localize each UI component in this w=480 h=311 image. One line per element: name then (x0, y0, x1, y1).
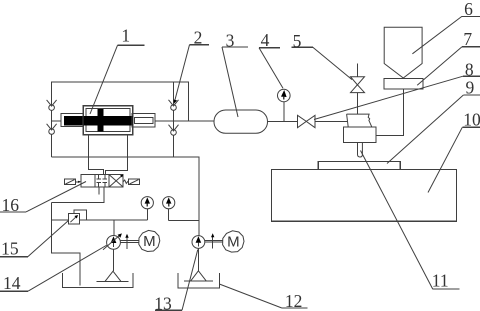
valve V16 crossed cell (109, 175, 123, 187)
label 4 (259, 30, 283, 88)
solenoid left (65, 179, 81, 184)
globe valve V5 (351, 64, 365, 115)
wire left pump riser (113, 220, 115, 236)
valve V16 center blocked ports (97, 175, 108, 187)
piston rod (filled) (64, 116, 133, 126)
label 8 (314, 60, 480, 120)
left rod housing (61, 113, 83, 126)
nozzle upper body (347, 114, 372, 127)
wire valve bottom plugged stub (98, 187, 100, 195)
label 11 (361, 151, 460, 291)
wire valve 8 to nozzle body (315, 120, 347, 122)
gauge G1 (141, 197, 153, 220)
pump P1 variable arrow (103, 233, 122, 249)
valve V16 cell dividers (94, 175, 96, 187)
wire cylinder left port down (88, 135, 103, 175)
svg-text:15: 15 (1, 239, 19, 259)
relief valve V15 body (69, 213, 80, 224)
cylinder C1 outer shell (83, 106, 133, 135)
motor M2 (223, 231, 244, 252)
wire rod line to accumulator (155, 120, 214, 122)
right rod outer tube (132, 113, 155, 127)
relief valve pilot loop (74, 210, 87, 220)
label 9 (387, 77, 480, 163)
table 10 (271, 170, 456, 222)
label 3 (222, 30, 248, 117)
gauge G4 (278, 89, 291, 121)
label 16 (0, 182, 86, 216)
shaft P1-M1 (120, 234, 138, 249)
filter F1 (97, 271, 129, 281)
wire cylinder right port down (105, 135, 127, 175)
wire gauge G2 to right riser (169, 219, 199, 221)
svg-text:4: 4 (261, 30, 270, 50)
svg-text:9: 9 (466, 77, 475, 97)
nozzle lower body (343, 127, 375, 142)
nozzle tip 11 (358, 142, 363, 157)
wire top header from left column to right corner (52, 82, 189, 157)
tank T2 (178, 273, 219, 288)
gauge G2 (163, 197, 175, 221)
svg-text:5: 5 (293, 31, 302, 51)
label 13 (154, 250, 198, 311)
svg-text:13: 13 (154, 293, 172, 311)
wire right check-valve column (173, 82, 175, 157)
label 5 (292, 31, 353, 80)
accumulator A3 (214, 110, 268, 133)
wire long horizontal to right pump riser (52, 157, 199, 235)
svg-text:10: 10 (463, 110, 480, 130)
check valve left bottom (47, 124, 57, 135)
motor M1 (139, 230, 160, 251)
wire pump P1 suction (113, 249, 115, 271)
wire pump P2 suction (197, 248, 199, 270)
piston (filled) (98, 109, 104, 132)
svg-text:1: 1 (121, 25, 130, 45)
cylinder C1 inner bore (86, 109, 130, 132)
feeder block 7 (384, 79, 423, 89)
check valve left top (47, 100, 57, 110)
svg-text:11: 11 (432, 271, 449, 291)
filter F2 (184, 271, 213, 281)
wire feeder pipe down (376, 89, 403, 136)
wire pressure line to gauge (80, 219, 148, 221)
check valve right top (169, 100, 179, 110)
wire rod-end line left (52, 120, 61, 122)
check valve right bottom (169, 125, 179, 136)
wire left return pipe to tank (52, 202, 80, 285)
svg-text:M: M (143, 233, 156, 250)
label 10 (428, 110, 480, 193)
pump P2 (192, 236, 205, 249)
label 2 with arrow (174, 27, 209, 103)
shaft P2-M2 (205, 233, 223, 248)
valve V16 body (81, 175, 123, 187)
wire pressure line left of relief (52, 219, 69, 221)
right rod inner slot (135, 118, 153, 124)
solenoid right (123, 179, 139, 184)
label 12 (219, 284, 307, 311)
svg-text:M: M (227, 234, 240, 251)
tank T1 (62, 273, 133, 288)
shutoff valve V8 (298, 115, 316, 127)
relief valve arrow (70, 215, 78, 222)
workpiece plate 9 (318, 162, 400, 170)
label 15 (0, 221, 69, 259)
label 1 (90, 25, 145, 114)
label 7 (417, 29, 480, 85)
wire accumulator to valve 8 (268, 120, 298, 122)
pump P1 (variable) (107, 236, 121, 250)
label 6 (412, 0, 480, 54)
svg-text:14: 14 (3, 273, 21, 293)
hopper H6 (384, 27, 422, 78)
wire valve tank port to left pipe (52, 187, 104, 202)
label 14 (0, 245, 107, 293)
